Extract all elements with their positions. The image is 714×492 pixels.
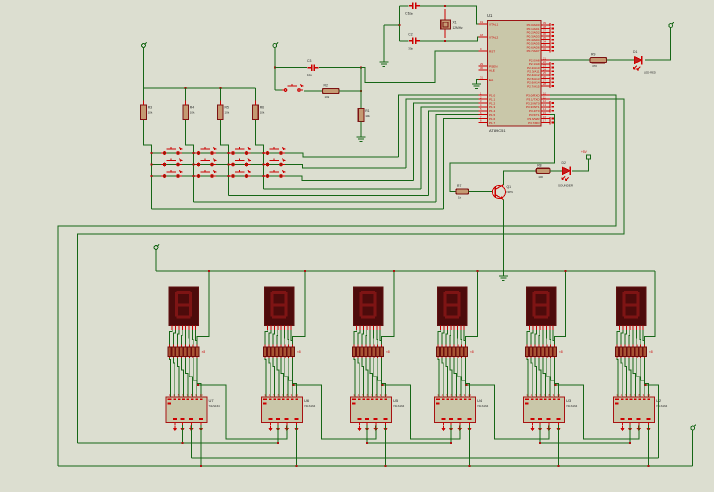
- 7-segment display 5: [527, 287, 557, 325]
- bus entry arrow: [637, 426, 641, 432]
- wire latch U6 pin2 to bus: [277, 425, 279, 443]
- pin ALE (30): [479, 69, 488, 71]
- svg-text:100: 100: [538, 175, 543, 179]
- pin P0.3 (36): [541, 35, 550, 37]
- wire: [339, 90, 361, 92]
- latch U5 top pin numbers: [352, 393, 388, 405]
- resistor R8: [536, 168, 550, 173]
- wire clock link U6 to next block: [294, 385, 376, 439]
- capacitor C3: [275, 67, 307, 69]
- pin P0.7 (32): [541, 50, 550, 52]
- svg-text:R3: R3: [148, 106, 152, 110]
- capacitor C1: [400, 5, 409, 7]
- bus entry arrow: [530, 426, 534, 432]
- node keypad junction row1 col1: [151, 152, 153, 154]
- pin P1.5 (6): [479, 114, 488, 116]
- svg-text:R9: R9: [591, 53, 595, 57]
- svg-text:74LS164: 74LS164: [566, 404, 578, 408]
- pin P3.7 (17): [541, 122, 550, 124]
- wire: [607, 59, 635, 61]
- bus entry arrow: [285, 426, 289, 432]
- display 4 pins: [441, 325, 464, 330]
- svg-text:31: 31: [480, 76, 483, 80]
- wire: [143, 50, 145, 89]
- svg-text:C3: C3: [307, 59, 311, 63]
- node rail junction 3: [393, 270, 395, 272]
- pin P2.1 (22): [541, 63, 550, 65]
- pin P0.2 (37): [541, 31, 550, 33]
- pin P0.6 (33): [541, 46, 550, 48]
- pin P0.5 (34): [541, 42, 550, 44]
- 7-segment display 4: [438, 287, 468, 325]
- wire resistor pack 6 to latch: [617, 358, 649, 397]
- svg-text:×8: ×8: [559, 350, 563, 354]
- push button keypad row2 col2: [195, 159, 216, 166]
- svg-text:×8: ×8: [386, 350, 390, 354]
- resistor R7: [456, 189, 469, 194]
- wire latch U2 pin2 to bus: [629, 425, 631, 443]
- wire +5V rail to display 3 common anode: [382, 271, 394, 345]
- bus entry arrow: [628, 426, 632, 432]
- svg-text:10u: 10u: [307, 73, 312, 77]
- latch U3 bottom pins: [533, 423, 559, 426]
- svg-text:10k: 10k: [148, 111, 153, 115]
- resistor pack RP5 x8: [525, 345, 563, 359]
- svg-text:SOUNDER: SOUNDER: [558, 184, 574, 188]
- wire resistor pack 2 to latch: [265, 358, 297, 397]
- pin RST (9): [479, 50, 488, 52]
- power flag +5V display rail: [154, 244, 159, 252]
- op-amp U7 latch 74LS164 body: [166, 397, 207, 423]
- wire: [645, 30, 671, 61]
- svg-text:LED-RED: LED-RED: [644, 71, 656, 75]
- bus entry arrow: [199, 426, 203, 432]
- svg-text:XTAL2: XTAL2: [489, 36, 499, 40]
- bus entry arrow: [180, 426, 184, 432]
- wire clock link U2 to bus: [646, 385, 659, 458]
- svg-text:×8: ×8: [649, 350, 653, 354]
- svg-text:U5: U5: [393, 398, 399, 403]
- wire data bus segment B: [367, 442, 451, 444]
- resistor R4: [185, 88, 187, 105]
- wire resistor pack 3 to latch: [354, 358, 386, 397]
- svg-text:74LS164: 74LS164: [656, 404, 668, 408]
- pin P3.0 (10): [541, 94, 550, 96]
- op-amp U4 latch 74LS164 body: [435, 397, 476, 423]
- push button keypad row1 col1: [161, 147, 182, 154]
- svg-text:P2.7/A15: P2.7/A15: [527, 84, 540, 88]
- node junction X1 top: [444, 5, 446, 7]
- svg-text:Q1: Q1: [507, 185, 512, 189]
- node keypad junction row3 col2: [193, 175, 195, 177]
- wire keypad column 1: [144, 120, 152, 209]
- wire latch U2 pin4 to +5V bus: [648, 425, 650, 466]
- wire latch U5 pin4 to +5V bus: [385, 425, 387, 466]
- bus entry arrow: [365, 426, 369, 432]
- power flag +5V LED: [669, 22, 674, 30]
- node clock tap: [197, 384, 199, 386]
- latch U5 bottom pins: [360, 423, 386, 426]
- resistor pack RP3 x8: [352, 345, 390, 359]
- wire latch U7 pin3 to bus 458: [190, 425, 192, 458]
- pin XTAL1 (19): [479, 23, 488, 25]
- ground EA pin: [477, 80, 479, 84]
- push button keypad row2 col1: [161, 159, 182, 166]
- op-amp U1 microcontroller AT89C51 body: [488, 21, 542, 127]
- diode D2 sounder: [563, 167, 571, 175]
- svg-text:XTAL1: XTAL1: [489, 23, 499, 27]
- pin P2.3 (24): [541, 70, 550, 72]
- push button keypad row3 col4: [264, 170, 285, 177]
- wire: [155, 252, 157, 272]
- bus entry arrow: [547, 426, 551, 432]
- bus entry arrow: [294, 426, 298, 432]
- bus entry arrow: [276, 426, 280, 432]
- svg-text:R5: R5: [225, 106, 229, 110]
- pin P3.4 (14): [541, 110, 550, 112]
- svg-text:10k: 10k: [365, 114, 370, 118]
- resistor pack RP6 x8: [615, 345, 653, 359]
- svg-text:P0.7/AD7: P0.7/AD7: [527, 49, 540, 53]
- wire keypad column 2 run: [194, 201, 436, 203]
- bus entry arrow: [441, 426, 445, 432]
- wire: [360, 121, 362, 137]
- wire: [399, 6, 401, 41]
- latch U7 bottom pins: [175, 423, 201, 426]
- wire latch U7 pin4 to +5V bus: [200, 425, 202, 466]
- wire display 5 to resistor pack: [527, 330, 555, 345]
- pin P1.0 (1): [479, 94, 488, 96]
- node junction R5 top: [219, 87, 221, 89]
- resistor R2: [323, 88, 340, 93]
- node keypad junction row1 col3: [227, 152, 229, 154]
- pin P2.0 (21): [541, 59, 550, 61]
- display 2 pins: [268, 325, 291, 330]
- node clock tap: [293, 384, 295, 386]
- pin P3.2 (12): [541, 102, 550, 104]
- display 1 pins: [172, 325, 195, 330]
- wire latch U3 pin2 to bus: [539, 425, 541, 443]
- svg-text:74LS164: 74LS164: [477, 404, 489, 408]
- pin P0.0 (39): [541, 24, 550, 26]
- node keypad junction row2 col2: [193, 164, 195, 166]
- wire latch U4 pin4 to +5V bus: [469, 425, 471, 466]
- wire: [692, 431, 694, 466]
- node junction R4 top: [185, 87, 187, 89]
- pin XTAL2 (18): [479, 36, 488, 38]
- svg-text:X1: X1: [453, 21, 457, 25]
- svg-text:NPN: NPN: [507, 190, 513, 194]
- svg-text:+5V: +5V: [581, 150, 588, 154]
- wire latch U4 pin2 to bus: [450, 425, 452, 443]
- pin P2.4 (25): [541, 74, 550, 76]
- resistor pack RP2 x8: [263, 345, 301, 359]
- bus entry arrow: [467, 426, 471, 432]
- node clock tap: [555, 384, 557, 386]
- bus entry arrow: [556, 426, 560, 432]
- display 5 pins: [530, 325, 553, 330]
- node keypad junction row2 col4: [262, 164, 264, 166]
- svg-text:R6: R6: [260, 106, 264, 110]
- wire data bus segment C: [540, 442, 630, 444]
- node keypad junction row3 col4: [262, 175, 264, 177]
- node keypad junction row1 col4: [262, 152, 264, 154]
- latch U4 bottom pins: [444, 423, 470, 426]
- node keypad junction row3 col1: [151, 175, 153, 177]
- wire: [550, 59, 590, 61]
- resistor R6: [255, 88, 257, 105]
- svg-text:D1: D1: [633, 50, 637, 54]
- node junction R1 top: [360, 67, 362, 69]
- wire RST trace: [361, 51, 479, 82]
- node keypad junction row2 col1: [151, 164, 153, 166]
- op-amp U6 latch 74LS164 body: [262, 397, 303, 423]
- svg-text:29: 29: [480, 62, 483, 66]
- pin P3.6 (16): [541, 118, 550, 120]
- resistor pack RP4 x8: [436, 345, 474, 359]
- push button keypad row1 col4: [264, 147, 285, 154]
- wire resistor pack 4 to latch: [438, 358, 470, 397]
- pin P1.4 (5): [479, 110, 488, 112]
- pin P2.6 (27): [541, 81, 550, 83]
- wire emitter to ground: [502, 200, 504, 277]
- latch U3 top pin numbers: [525, 393, 561, 405]
- svg-text:U3: U3: [566, 398, 572, 403]
- wire P3.5 to base resistor: [450, 115, 555, 192]
- display 3 pins: [357, 325, 380, 330]
- svg-text:R1: R1: [365, 109, 369, 113]
- transistor Q1: [493, 185, 506, 200]
- wire keypad column 2: [186, 120, 194, 202]
- svg-text:RST: RST: [489, 50, 495, 54]
- wire clock link U3 to next block: [556, 385, 639, 439]
- power flag +5V reset: [273, 42, 278, 50]
- wire keypad row 2: [152, 165, 407, 169]
- wire keypad column 3 run: [228, 195, 428, 197]
- push button keypad row3 col3: [230, 170, 251, 177]
- svg-text:30p: 30p: [408, 46, 413, 50]
- push button keypad row3 col1: [161, 170, 182, 177]
- svg-text:AT89C51: AT89C51: [489, 128, 506, 133]
- svg-text:10k: 10k: [325, 95, 330, 99]
- pin P3.5 (15): [541, 114, 550, 116]
- bus entry arrow: [458, 426, 462, 432]
- svg-text:74LS164: 74LS164: [393, 404, 405, 408]
- node keypad junction row3 col3: [227, 175, 229, 177]
- svg-text:D2: D2: [562, 161, 566, 165]
- wire: [550, 170, 563, 172]
- op-amp U5 latch 74LS164 body: [351, 397, 392, 423]
- bus entry arrow: [173, 426, 177, 432]
- bus entry arrow: [620, 426, 624, 432]
- node keypad junction row1 col2: [193, 152, 195, 154]
- ground crystal: [379, 62, 388, 66]
- svg-text:×8: ×8: [297, 350, 301, 354]
- pin P2.7 (28): [541, 85, 550, 87]
- svg-text:10k: 10k: [190, 111, 195, 115]
- ground reset: [357, 137, 366, 141]
- wire clock link U7 to next block: [198, 385, 287, 439]
- latch U2 bottom pins: [623, 423, 649, 426]
- wire: [360, 68, 362, 109]
- wire keypad line 7 to P1.6: [444, 119, 479, 209]
- bus entry arrow: [449, 426, 453, 432]
- svg-text:12MHz: 12MHz: [453, 26, 464, 30]
- wire XTAL1 net: [445, 6, 479, 24]
- crystal X1: [444, 9, 446, 20]
- svg-text:10k: 10k: [225, 111, 230, 115]
- wire keypad line 4 to P1.3: [421, 107, 478, 189]
- wire display 4 to resistor pack: [438, 330, 466, 345]
- node rail junction 5: [564, 270, 566, 272]
- wire: [274, 50, 276, 91]
- push button keypad row2 col4: [264, 159, 285, 166]
- latch U4 top pin numbers: [436, 393, 472, 405]
- svg-text:74LS164: 74LS164: [304, 404, 316, 408]
- svg-text:R8: R8: [537, 163, 541, 167]
- resistor R1: [358, 109, 364, 122]
- push button keypad row2 col3: [230, 159, 251, 166]
- wire resistor pack 1 to latch: [170, 358, 202, 397]
- svg-text:C2: C2: [408, 32, 412, 36]
- wire data bus segment A: [78, 442, 278, 444]
- wire keypad line 1 to P1.0: [399, 95, 479, 157]
- wire keypad column 4: [256, 120, 264, 189]
- pin P0.1 (38): [541, 28, 550, 30]
- svg-text:74LS164: 74LS164: [209, 404, 221, 408]
- wire bus 466 +5V: [58, 465, 693, 467]
- wire display 1 to resistor pack: [170, 330, 198, 345]
- pin P0.4 (35): [541, 39, 550, 41]
- node rail junction 1: [208, 270, 210, 272]
- wire keypad row 3: [152, 176, 414, 181]
- wire +5V rail to display 6 common anode: [645, 271, 655, 345]
- svg-text:U6: U6: [304, 398, 310, 403]
- svg-text:470: 470: [592, 64, 597, 68]
- node clock tap U2: [645, 384, 647, 386]
- svg-text:30: 30: [480, 66, 483, 70]
- pin EA (31): [479, 79, 488, 81]
- wire bus 458: [191, 457, 658, 459]
- svg-text:19: 19: [480, 20, 483, 24]
- diode D1 LED: [634, 56, 642, 64]
- latch U6 top pin numbers: [263, 393, 299, 405]
- svg-text:18: 18: [480, 33, 483, 37]
- node clock tap: [382, 384, 384, 386]
- node rail junction 4: [477, 270, 479, 272]
- svg-text:R7: R7: [457, 184, 461, 188]
- wire +5V rail to display 2 common anode: [293, 271, 305, 345]
- latch U7 top pin numbers: [168, 393, 204, 405]
- svg-text:10k: 10k: [260, 111, 265, 115]
- wire clock link U5 to next block: [383, 385, 460, 439]
- wire keypad line 6 to P1.5: [436, 115, 479, 202]
- wire +5V rail to display 5 common anode: [555, 271, 566, 345]
- svg-text:P1.7: P1.7: [489, 121, 496, 125]
- wire collector: [503, 171, 536, 185]
- wire: [304, 90, 323, 92]
- 7-segment display 1: [169, 287, 199, 325]
- latch U2 top pin numbers: [615, 393, 651, 405]
- svg-text:R4: R4: [190, 106, 194, 110]
- wire resistor pack 5 to latch: [527, 358, 559, 397]
- wire keypad line 5 to P1.4: [429, 111, 479, 196]
- node clock tap: [466, 384, 468, 386]
- 7-segment display 6: [617, 287, 647, 325]
- bus entry arrow: [268, 426, 272, 432]
- wire latch U3 pin4 to +5V bus: [558, 425, 560, 466]
- wire keypad column 3: [220, 120, 228, 196]
- svg-text:P3.7/RD: P3.7/RD: [528, 121, 540, 125]
- pin P1.2 (3): [479, 102, 488, 104]
- bus entry arrow: [646, 426, 650, 432]
- wire keypad column 4 run: [263, 188, 421, 190]
- pin P3.1 (11): [541, 98, 550, 100]
- wire +5V rail to display 4 common anode: [466, 271, 478, 345]
- push button keypad row3 col2: [195, 170, 216, 177]
- bus entry arrow: [357, 426, 361, 432]
- wire display 3 to resistor pack: [354, 330, 382, 345]
- wire: [384, 24, 400, 26]
- node keypad junction row2 col3: [227, 164, 229, 166]
- wire keypad column 1 run: [152, 208, 444, 210]
- wire display +5V rail: [156, 270, 655, 272]
- wire clock link U4 to next block: [467, 385, 549, 439]
- power flag +5V keypad pull-up rail: [142, 42, 147, 50]
- bus entry arrow: [189, 426, 193, 432]
- display 6 pins: [620, 325, 643, 330]
- wire display 2 to resistor pack: [265, 330, 293, 345]
- op-amp U3 latch 74LS164 body: [524, 397, 565, 423]
- power flag +5V sounder: [587, 155, 591, 159]
- wire keypad pull-up rail: [144, 87, 256, 89]
- bus entry arrow: [383, 426, 387, 432]
- push button reset: [275, 89, 284, 91]
- wire +5V rail to display 1 common anode: [197, 271, 209, 345]
- wire keypad line 2 to P1.1: [406, 99, 478, 168]
- node junction X1 bottom: [444, 40, 446, 42]
- pin P3.3 (13): [541, 106, 550, 108]
- resistor R3: [143, 88, 145, 105]
- wire latch U7 pin2 to bus: [182, 425, 184, 443]
- pin P2.5 (26): [541, 78, 550, 80]
- svg-text:ALE: ALE: [489, 69, 495, 73]
- pin P1.7 (8): [479, 122, 488, 124]
- svg-text:C1: C1: [405, 12, 410, 16]
- wire: [469, 191, 493, 193]
- wire P3.0 serial clock loop: [58, 95, 616, 466]
- svg-text:U4: U4: [477, 398, 483, 403]
- svg-text:R2: R2: [324, 84, 328, 88]
- wire keypad row 1: [152, 153, 399, 157]
- svg-text:×8: ×8: [470, 350, 474, 354]
- op-amp U2 latch 74LS164 body: [614, 397, 655, 423]
- node junction C3 left: [274, 67, 276, 69]
- wire XTAL2 net: [445, 37, 479, 41]
- wire keypad line 3 to P1.2: [414, 103, 479, 181]
- resistor R9: [590, 58, 607, 63]
- wire latch U5 pin2 to bus: [366, 425, 368, 443]
- wire display 6 to resistor pack: [617, 330, 645, 345]
- push button keypad row1 col3: [230, 147, 251, 154]
- bus entry arrow: [538, 426, 542, 432]
- latch U6 bottom pins: [271, 423, 297, 426]
- pin P2.2 (23): [541, 67, 550, 69]
- node rail junction 2: [304, 270, 306, 272]
- bus entry arrow: [374, 426, 378, 432]
- resistor R5: [219, 88, 221, 105]
- power flag +5V bottom right: [691, 425, 696, 433]
